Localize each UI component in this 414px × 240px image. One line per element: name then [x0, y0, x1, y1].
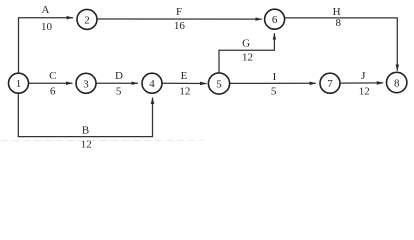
- label B/12: [81, 124, 92, 150]
- svg-text:A: A: [42, 4, 50, 16]
- node 6: [265, 9, 285, 29]
- wire D: node3 to node4: [97, 82, 139, 84]
- node 2: [77, 9, 97, 29]
- svg-text:I: I: [273, 71, 277, 83]
- wire I: node5 to node7: [230, 82, 316, 84]
- node 8: [387, 72, 407, 92]
- node 4: [142, 73, 162, 93]
- svg-text:B: B: [82, 124, 89, 136]
- wire H: node6 right then down to node8: [285, 18, 397, 71]
- svg-text:H: H: [333, 6, 341, 18]
- svg-text:10: 10: [41, 21, 53, 33]
- node 7: [320, 73, 340, 93]
- svg-text:4: 4: [149, 78, 155, 90]
- wire E: node4 to node5: [163, 82, 207, 84]
- svg-text:5: 5: [116, 86, 122, 98]
- wire F: node2 to node6: [98, 18, 262, 20]
- label G/12: [242, 38, 253, 64]
- node 1: [9, 73, 29, 93]
- label A/10: [41, 4, 53, 33]
- label F/16: [174, 6, 186, 32]
- svg-text:12: 12: [179, 86, 190, 98]
- svg-text:E: E: [181, 70, 188, 82]
- label D/5: [115, 70, 123, 98]
- svg-text:12: 12: [242, 52, 253, 64]
- svg-text:8: 8: [335, 17, 341, 29]
- svg-text:D: D: [115, 70, 123, 82]
- label H/8: [333, 6, 342, 29]
- svg-text:12: 12: [359, 86, 370, 98]
- node 5: [208, 73, 229, 94]
- node 3: [76, 73, 96, 93]
- label J/12: [359, 70, 370, 98]
- wire J: node7 to node8: [341, 82, 384, 84]
- svg-text:6: 6: [272, 14, 278, 26]
- wire G: node5 up, right, up into node6: [219, 33, 274, 72]
- label I/5: [271, 71, 277, 98]
- label C/6: [49, 70, 56, 97]
- svg-text:6: 6: [50, 86, 56, 98]
- svg-text:F: F: [176, 6, 182, 18]
- svg-text:3: 3: [83, 78, 89, 90]
- wire B: node1 down, right, up into node4: [18, 93, 152, 136]
- faint scan artifact line: [1, 139, 204, 141]
- svg-text:7: 7: [327, 78, 333, 90]
- svg-text:J: J: [361, 70, 366, 82]
- wire C: node1 to node3: [29, 82, 73, 84]
- svg-text:5: 5: [271, 86, 277, 98]
- svg-text:16: 16: [174, 20, 186, 32]
- svg-text:G: G: [242, 38, 250, 50]
- svg-text:8: 8: [394, 78, 400, 90]
- svg-text:5: 5: [216, 79, 222, 91]
- label E/12: [179, 70, 190, 97]
- svg-text:2: 2: [84, 14, 90, 26]
- svg-text:1: 1: [16, 78, 22, 90]
- svg-text:C: C: [49, 70, 56, 82]
- wire A: node1 up then right to node2: [19, 18, 74, 74]
